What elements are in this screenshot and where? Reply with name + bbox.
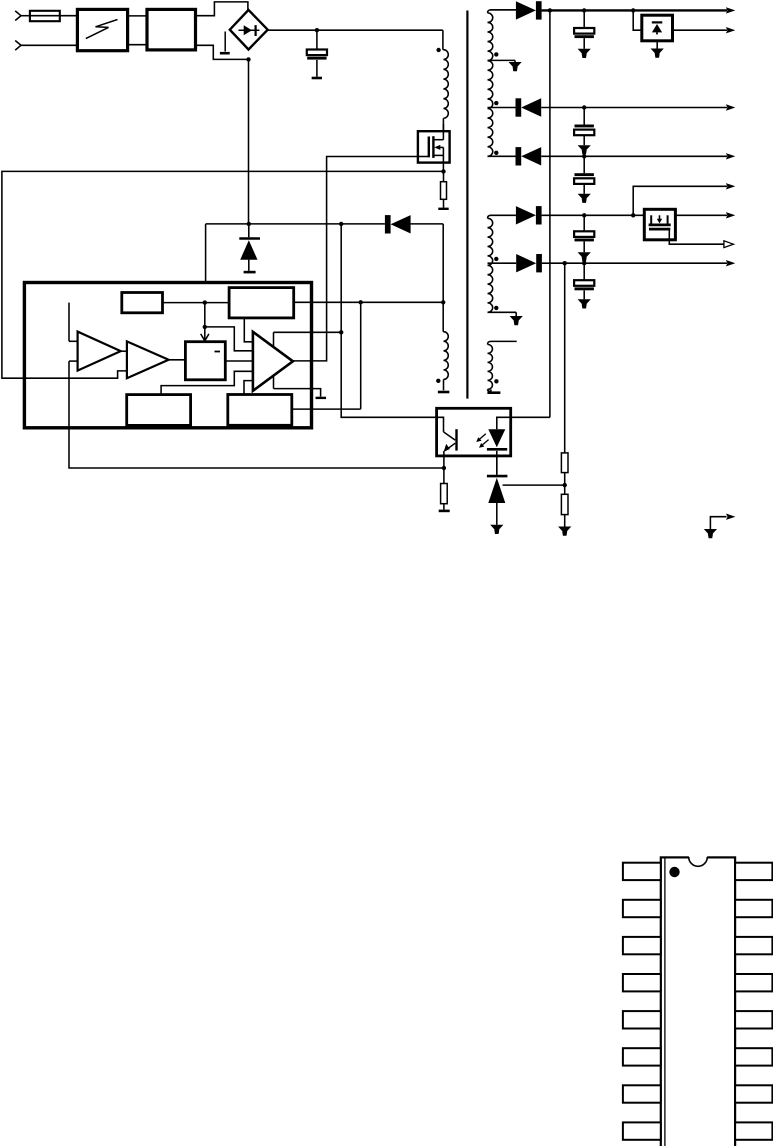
node row1 rail [548,8,552,12]
U1 B5 top pin [244,381,253,395]
Q1 body arrow [436,146,443,148]
U1 bias bar behind driver [273,332,275,388]
node D6 left [339,222,343,226]
wire FL1-FL2 top [128,15,147,17]
secondary winding W1b (top) [488,10,516,13]
controller IC U1 box [24,283,311,428]
row1 output wire (thick) [542,9,727,11]
feedback rail 1 [549,10,551,417]
U3 right pin 12 [735,1011,772,1028]
row7 output wire [542,262,727,264]
row2 arrow [726,27,735,33]
rectifier diode D1 [516,1,536,19]
W1c dot a [494,257,498,261]
load switch X2 box [644,209,675,240]
AC input terminal J1 (line) [15,11,21,21]
U1 B4 pin path [161,371,253,394]
Q1 gate bar [428,137,430,158]
node row3 cap [582,105,586,109]
secondary winding W1c (middle) [488,215,516,218]
U1 A2 out wire [169,359,186,361]
U3 left pin 3 [623,937,661,954]
optocoupler U2 box [437,408,511,456]
row3 arrow [726,104,735,110]
W1b dot a [494,52,498,56]
R4 ground [564,515,566,527]
U3 notch [689,855,707,859]
U2 collector entry [437,417,444,432]
U1 A1-A2 link [121,350,127,352]
W1a phase dot [436,48,440,52]
U1 osc box B1 [122,293,163,313]
U1 driver T3 [253,332,293,391]
feedback rail 2 [564,263,566,453]
output return marker [710,517,726,529]
U1 vcc row [294,301,444,303]
aux winding W1e [442,302,444,331]
row6 arrow [726,212,735,218]
U1 B3 minus sign [215,351,221,353]
filter cap C6 [583,263,585,280]
U1 bias bar term [316,397,327,399]
filter cap C4 [583,156,585,173]
regulator X1 input wire [633,10,642,30]
U3 left pin 1 [623,863,661,880]
U3 left pin 4 [623,974,661,991]
U3 right pin 11 [735,1048,772,1065]
node row1 cap [582,8,586,12]
opto collector net [341,224,443,417]
emitter row to IC [69,361,444,468]
U3 left pin 5 [623,1011,661,1028]
U2 transistor [444,432,456,440]
surge zigzag symbol [86,20,118,39]
rectifier diode D3 [516,147,522,165]
clamp diode D6 [385,215,391,233]
U1 amp A1 input stubs [69,340,78,342]
W1c dot b [494,306,498,310]
U1 uvlo box B5 [228,395,292,426]
U2 LED [488,429,505,447]
node row4 cap [582,154,586,158]
divider resistor R3 [561,453,568,473]
W1d dot [494,379,498,383]
X1 zener symbol [652,21,663,23]
node emitter junction [442,466,446,470]
U3 left pin 8 [623,1122,661,1139]
gate net wire [293,157,418,361]
wire D6 to aux node [442,224,444,302]
U3 left pin 7 [623,1085,661,1102]
node latch tap [203,325,207,329]
Q1 source stub [433,154,443,156]
secondary winding W1d (bottom) [488,341,517,344]
U3 right pin 10 [735,1085,772,1102]
U1 latch arrow wire [204,303,206,341]
U1 bias bottom wire [274,389,321,397]
U1 B2 bottom pin [244,318,253,342]
DIP IC U3 body [661,857,735,1146]
BR1 internal diode + plus [239,29,260,31]
AC input terminal J2 (neutral) [15,41,21,51]
MOSFET Q1 box [418,131,450,162]
U1 softstart box B4 [127,395,191,426]
row4 arrow [726,153,735,159]
Q1 drain stub [442,124,444,140]
row6 output wire [542,214,727,216]
X2 pmos symbol [650,215,652,223]
bulk capacitor C1 [316,30,318,49]
U3 right pin 14 [735,937,772,954]
U3 pin1 dot [669,867,679,877]
row1 wire from winding [490,9,516,11]
wire clamp to IC top pin [205,224,207,283]
node row6 cap [582,213,586,217]
U2 LED cathode wire [496,451,498,475]
U3 right pin 15 [735,900,772,917]
filter cap C2 [583,10,585,28]
U3 left pin 2 [623,900,661,917]
primary winding W1a [442,30,444,50]
node vcc tee [359,300,363,304]
Q1 gate entry [418,156,429,158]
rectifier diode D4 [516,206,536,224]
node clamp-collector mid [339,330,343,334]
U3 left pin 6 [623,1048,661,1065]
row5 riser wire [633,186,727,215]
U1 vcc drop wire [360,302,362,409]
U3 right pin 16 [735,863,772,880]
HV bus wire down [248,59,250,224]
filter cap C5 [583,215,585,231]
filter cap C3 [583,108,585,125]
W1e phase dot [436,379,440,383]
W1e ground bar [438,391,450,394]
U1 path to driver in2 [205,327,253,351]
open arrow (enable) [724,241,734,248]
wire R3-R4 [564,473,566,495]
U1 ref line [68,303,70,342]
sense resistor R1 [443,171,445,181]
emitter resistor R2 [443,468,445,484]
clamp row wire [206,223,385,225]
EMI filter block FL1 (surge) [77,9,127,50]
row7 arrow [726,260,735,266]
W1c mid tap wire [488,262,517,264]
W1b dot c [494,151,498,155]
fuse F1 [30,11,60,21]
rectifier diode D2 [516,98,522,116]
U1 amp A1 [78,332,121,371]
W1d ground bar [487,391,500,394]
EMI filter block FL2 [147,9,196,50]
W1b dot b [494,101,498,105]
node source junction [441,169,445,173]
U1 pwm box B3 [185,342,225,380]
U2 LED anode wire [497,417,550,429]
row4 output wire [541,155,727,157]
W1b tap2 wire to ground [488,59,516,61]
wire FL2 to bridge bottom (N) [196,45,249,59]
U2 emitter wire [443,451,445,468]
feedback zener VR2 [496,452,498,475]
X2 gate/enable wire [669,231,724,245]
U1 amp A2 [127,341,169,378]
row1 arrow [726,7,735,13]
node row1 reg [631,8,635,12]
U3 inner edge line [664,859,666,1146]
U1 B5 out wire [292,408,361,410]
U2 light arrows [478,434,486,441]
U1 B3 out wire [225,360,253,362]
wire FL2 to bridge top (L) [196,2,248,16]
node clamp junction [247,222,251,226]
U1 bias top wire [274,331,342,333]
U3 right pin 13 [735,974,772,991]
regulator X1 box [642,15,673,41]
U1 B1 out wire [163,302,230,304]
bridge rectifier BR1 (diamond) [230,10,268,50]
row5 arrow [726,183,735,189]
wire FL1-FL2 bottom [128,44,147,46]
clamp zener VR1 [248,224,250,237]
transformer core [466,11,468,399]
X1 ground [656,41,658,49]
node row7 rail2 [563,261,567,265]
current sense row to far left [2,171,444,378]
U1 reg box B2 [229,288,294,318]
row3 output wire [541,107,727,109]
node DC+ : bridge to bulk cap wire [268,29,443,31]
X1 output wire [673,29,728,31]
node row6 switch [631,213,635,217]
divider resistor R4 [561,494,568,514]
node B1 out [203,300,207,304]
U3 right pin 9 [735,1122,772,1139]
W1b tap4 wire [488,155,516,157]
W1b tap3 wire [488,107,516,109]
Q1 channel bar [432,136,434,158]
BR1 AC2 stub + bar [224,32,226,52]
node aux junction [441,300,445,304]
rectifier diode D5 [516,254,536,272]
junction bridge minus [246,57,250,61]
node divider [563,483,567,487]
W1c bottom ground [515,312,517,316]
feedback wire to zener [503,484,565,486]
node row7 cap [582,261,586,265]
